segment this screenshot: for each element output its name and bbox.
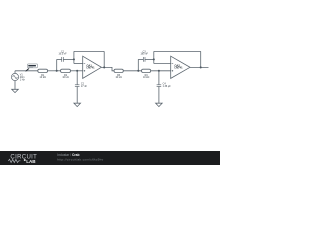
wire OA1 inverting input stub: [74, 63, 83, 65]
footer title text: [57, 153, 103, 161]
junction C3/feedback: [153, 58, 155, 60]
wire C3 left lead: [138, 58, 143, 60]
CircuitLab logo: [8, 154, 37, 163]
svg-text:16.5 nF: 16.5 nF: [58, 53, 67, 56]
wire OA1 inverting feedback vertical: [73, 51, 75, 63]
R3 value label: [115, 74, 122, 79]
svg-text:10 kΩ: 10 kΩ: [143, 76, 150, 79]
wire C4 to ground: [158, 87, 160, 104]
capacitor C3: [143, 57, 145, 62]
C1 value label: [58, 50, 67, 55]
wire V1 to flag to R1: [15, 70, 38, 72]
wire R4 to node D to OA2 + input: [151, 70, 171, 72]
wire C1 left lead: [57, 58, 62, 60]
wire OA2 feedback top: [154, 50, 201, 52]
C4 value label: [163, 83, 172, 88]
flag label (input net): [25, 64, 37, 72]
svg-text:http://circuitlab.com/c6kc9hv: http://circuitlab.com/c6kc9hv: [57, 157, 103, 161]
wire OA2 inverting input stub: [154, 63, 171, 65]
wire R1 to node A to R2: [48, 70, 61, 72]
V1 value labels: [20, 74, 26, 82]
wire node C riser: [137, 59, 139, 70]
junction OA1 output: [103, 66, 105, 68]
R2 value label: [62, 74, 69, 79]
svg-text:10 kΩ: 10 kΩ: [62, 76, 69, 79]
wire V1 top riser: [14, 71, 16, 74]
wire OA2 feedback down to output: [200, 51, 202, 67]
capacitor C4: [157, 85, 162, 87]
svg-text:LM741: LM741: [175, 66, 184, 70]
op-amp OA2: [171, 56, 190, 78]
node A junction: [56, 70, 58, 72]
node D junction: [158, 70, 160, 72]
R4 value label: [143, 74, 150, 79]
node C junction: [137, 70, 139, 72]
resistor R3: [114, 69, 123, 72]
junction OA2 output: [200, 66, 202, 68]
ground (stage 2): [156, 103, 163, 106]
C2 value label: [81, 83, 88, 88]
wire node D riser down: [158, 71, 160, 85]
wire OA2 inverting feedback vertical: [153, 51, 155, 63]
wire C2 to ground: [76, 87, 78, 104]
wire node A riser: [56, 59, 58, 70]
wire node B riser down: [76, 71, 78, 85]
ground (stage 1): [74, 103, 81, 106]
wire R2 to OA1 + input: [71, 70, 83, 72]
wire OA1 output to R3: [101, 67, 114, 70]
junction C1/feedback: [73, 58, 75, 60]
C3 value label: [140, 50, 148, 55]
resistor R1: [38, 69, 48, 72]
wire V1 bottom lead: [14, 81, 16, 90]
svg-text:1 Hz: 1 Hz: [20, 78, 26, 81]
svg-text:LAB: LAB: [26, 159, 36, 164]
svg-text:10 kΩ: 10 kΩ: [40, 76, 47, 79]
node B junction: [76, 70, 78, 72]
wire OA1 feedback top: [74, 50, 104, 52]
wire C1 right lead: [63, 58, 74, 60]
wire OA2 output: [190, 66, 209, 68]
capacitor C2: [75, 85, 80, 87]
svg-text:17 nF: 17 nF: [81, 85, 88, 88]
capacitor C1: [62, 57, 64, 62]
voltage source V1: [11, 73, 18, 80]
svg-text:LM741: LM741: [87, 66, 96, 70]
footer bar: [0, 151, 220, 165]
resistor R2: [61, 69, 71, 72]
ground (below V1): [12, 89, 19, 92]
resistor R4: [142, 69, 151, 72]
svg-text:1.36 µF: 1.36 µF: [163, 85, 172, 88]
svg-text:180 nF: 180 nF: [140, 53, 148, 56]
wire OA1 feedback down to output: [103, 51, 105, 67]
wire C3 right lead: [145, 58, 154, 60]
svg-text:Industar / Crab: Industar / Crab: [57, 153, 79, 157]
svg-text:10 kΩ: 10 kΩ: [115, 76, 122, 79]
R1 value label: [40, 74, 47, 79]
wire R3 to node C to R4: [123, 70, 141, 72]
op-amp OA1: [83, 56, 102, 78]
